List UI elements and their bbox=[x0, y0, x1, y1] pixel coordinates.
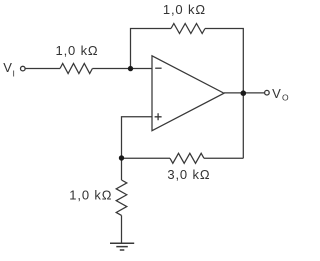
resistor R2 1,0 kohm feedback bbox=[171, 24, 205, 34]
node C junction non-inverting network bbox=[119, 155, 124, 160]
ground bbox=[110, 243, 134, 250]
wire R2 to output node bbox=[205, 29, 243, 94]
wire R1 to inverting input bbox=[92, 68, 152, 70]
op-amp U1 inverting pin marker bbox=[155, 67, 161, 69]
svg-text:I: I bbox=[13, 68, 15, 78]
svg-text:1,0 kΩ: 1,0 kΩ bbox=[69, 188, 112, 203]
wire Vi terminal to R1 bbox=[25, 68, 60, 70]
node B output junction bbox=[241, 90, 247, 96]
wire bottom feedback left segment to junction C bbox=[122, 157, 171, 159]
wire R4 to ground bbox=[121, 215, 123, 243]
resistor R3 3,0 kohm feedback bbox=[170, 153, 204, 163]
wire op-amp output to Vo terminal bbox=[224, 92, 264, 94]
svg-text:V: V bbox=[272, 86, 281, 101]
svg-text:1,0 kΩ: 1,0 kΩ bbox=[163, 2, 206, 17]
node Vi input terminal bbox=[21, 66, 26, 71]
svg-text:O: O bbox=[282, 93, 289, 103]
node A junction inverting input bbox=[128, 66, 133, 71]
svg-text:3,0 kΩ: 3,0 kΩ bbox=[167, 167, 210, 182]
wire bottom feedback right segment bbox=[204, 157, 243, 159]
op-amp U1 non-inverting pin marker bbox=[155, 113, 162, 120]
op-amp U1 bbox=[152, 56, 224, 131]
wire junction A up to top feedback bbox=[131, 29, 172, 69]
node Vo output terminal bbox=[265, 90, 270, 95]
wire non-inverting input bbox=[122, 117, 153, 159]
resistor R4 1,0 kohm to ground bbox=[116, 180, 127, 215]
wire junction C down to R4 bbox=[121, 158, 123, 180]
resistor R1 1,0 kohm series input bbox=[60, 64, 92, 74]
wire output node down to bottom feedback bbox=[242, 93, 244, 158]
svg-text:V: V bbox=[3, 60, 12, 75]
svg-text:1,0 kΩ: 1,0 kΩ bbox=[55, 43, 98, 58]
